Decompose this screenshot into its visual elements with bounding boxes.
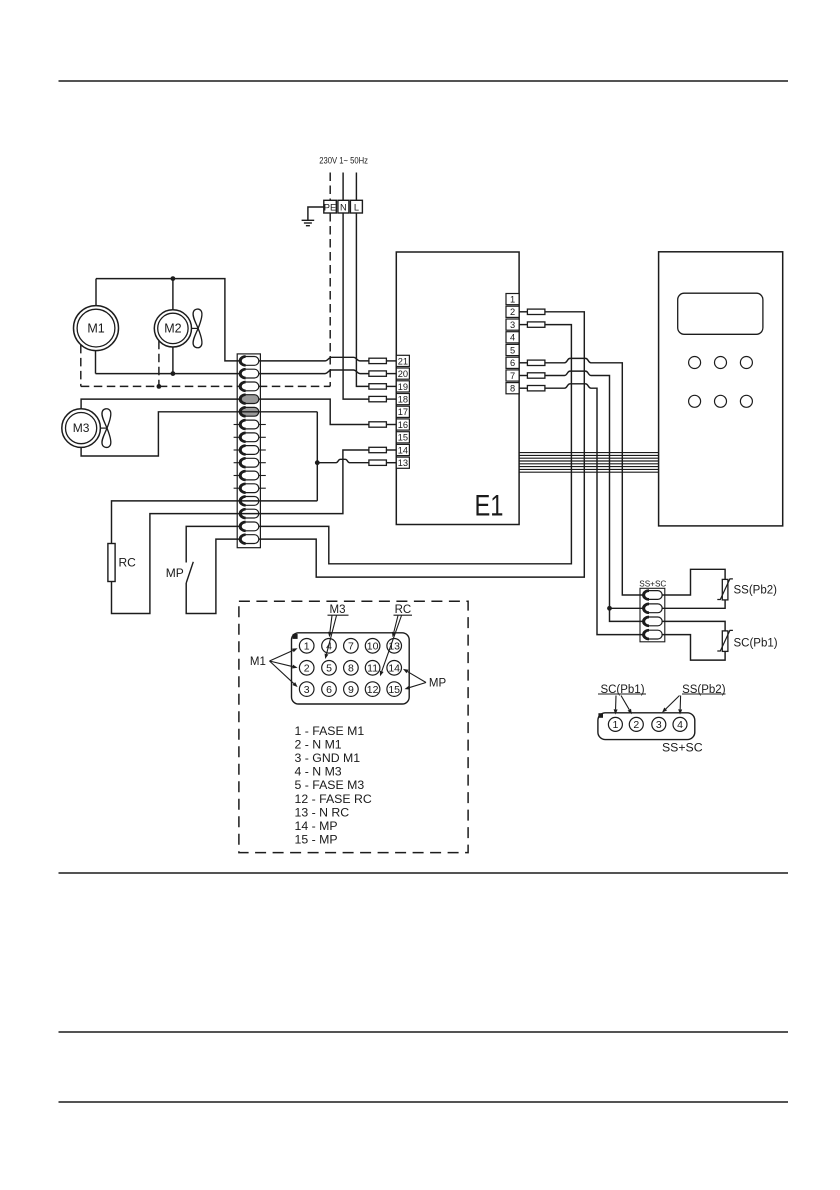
pin 2 of E1 — [506, 306, 519, 317]
svg-text:SS(Pb2): SS(Pb2) — [734, 584, 778, 596]
svg-text:1: 1 — [510, 295, 515, 305]
legend pin 11 — [365, 661, 380, 676]
pin 4 of E1 — [506, 332, 519, 343]
svg-text:8: 8 — [348, 663, 354, 675]
svg-text:16: 16 — [398, 420, 408, 430]
pin 20 of E1 — [396, 368, 409, 379]
node SS+SC 2 branch — [607, 606, 612, 611]
wire pin 2 stub — [519, 311, 527, 313]
terminal X1-6 — [239, 420, 259, 429]
legend pin 8 — [344, 661, 359, 676]
svg-text:20: 20 — [398, 369, 408, 379]
motor M2 — [154, 310, 191, 347]
terminal X1-3 — [239, 382, 259, 391]
legend pin 1 — [299, 639, 314, 654]
switch MP blade — [186, 562, 193, 583]
stub left X1-7 — [234, 436, 240, 438]
wire X1-1 to pin 21 (jog over PE N L) — [259, 357, 369, 361]
svg-text:E1: E1 — [475, 490, 504, 523]
terminal X1-15 — [239, 535, 259, 544]
svg-text:17: 17 — [398, 407, 408, 417]
legend pin 7 — [344, 639, 359, 654]
terminal X1-9 — [239, 458, 259, 467]
wire pin 18 from N — [386, 398, 396, 400]
svg-text:M1: M1 — [87, 321, 104, 335]
legend pin 13 — [387, 639, 402, 654]
svg-text:MP: MP — [429, 678, 447, 690]
panel button r1c3 — [740, 357, 752, 369]
terminal X1-1 — [239, 357, 259, 366]
motor M1 — [74, 306, 119, 351]
svg-text:15: 15 — [398, 433, 408, 443]
wire M1 top lead — [95, 279, 97, 306]
svg-text:M3: M3 — [330, 604, 346, 616]
svg-text:MP: MP — [166, 566, 184, 580]
pin 16 of E1 — [396, 419, 409, 430]
pin 1 of E1 — [506, 294, 519, 305]
legend SS+SC pin 2 — [629, 717, 643, 731]
motor M3 — [62, 409, 101, 448]
stub right X1-11 — [259, 487, 266, 489]
svg-text:6: 6 — [326, 684, 332, 696]
svg-text:L: L — [354, 202, 359, 212]
splice connector pin 13 — [369, 460, 387, 465]
fan of M2 — [192, 309, 202, 348]
terminal SS+SC-1 — [643, 591, 663, 600]
svg-text:18: 18 — [398, 395, 408, 405]
svg-text:3: 3 — [304, 684, 310, 696]
svg-text:SC(Pb1): SC(Pb1) — [734, 637, 778, 649]
legend pin 6 — [322, 682, 337, 697]
svg-text:5: 5 — [510, 345, 515, 355]
panel button r2c3 — [740, 395, 752, 407]
stub left X1-10 — [234, 475, 240, 477]
svg-text:SS+SC: SS+SC — [639, 579, 666, 588]
splice connector pin 2 — [527, 309, 545, 314]
panel button r2c1 — [689, 395, 701, 407]
svg-text:4: 4 — [677, 719, 683, 731]
wire N down — [343, 213, 369, 399]
wire pin 13 (bump over pin14 drop) — [317, 459, 369, 462]
svg-text:1: 1 — [612, 719, 618, 731]
wire SC(Pb1) to SS+SC-4 — [662, 635, 726, 661]
wire pin 6 to SS+SC 1 (bump) — [519, 362, 527, 364]
svg-text:14: 14 — [398, 445, 408, 455]
wire X1-3 earth dashed to PE — [259, 385, 330, 387]
wire L supply drop — [355, 173, 357, 201]
terminal SS+SC-2 — [643, 604, 663, 613]
svg-text:M3: M3 — [73, 421, 90, 435]
stub left X1-8 — [234, 449, 240, 451]
stub right X1-7 — [259, 436, 266, 438]
splice connector pin 20 — [369, 371, 387, 376]
ribbon cable E1-panel — [519, 452, 659, 454]
svg-text:19: 19 — [398, 382, 408, 392]
splice connector pin 7 — [527, 373, 545, 378]
svg-text:PE: PE — [324, 202, 336, 212]
legend connector key mark — [293, 634, 298, 639]
node earth bus / M2 — [157, 384, 162, 389]
panel button r1c2 — [715, 357, 727, 369]
legend connector SS+SC outline — [598, 713, 695, 740]
pin 8 of E1 — [506, 383, 519, 394]
wire X1-14 to pin 3 — [259, 325, 572, 564]
pin 5 of E1 — [506, 344, 519, 355]
svg-text:13 - N RC: 13 - N RC — [295, 805, 350, 819]
legend pin 4 — [322, 639, 337, 654]
wire M1 earth lead dashed — [80, 345, 82, 387]
wire M2 neutral lead — [172, 347, 174, 374]
splice connector pin 14 — [369, 447, 387, 452]
terminal X1-4 — [239, 395, 259, 404]
svg-text:5: 5 — [326, 663, 332, 675]
wire pin 8 to SS+SC 4 (bump) — [519, 387, 527, 389]
svg-text:3: 3 — [510, 320, 515, 330]
svg-text:4: 4 — [510, 333, 515, 343]
svg-text:14: 14 — [388, 663, 400, 675]
thermistor SC(Pb1) — [722, 631, 728, 652]
terminal PE — [324, 200, 337, 213]
panel button r2c2 — [715, 395, 727, 407]
terminal X1-5 — [239, 407, 259, 416]
wire pin 3 stub — [519, 324, 527, 326]
terminal SS+SC-4 — [643, 630, 663, 639]
wire X1-5 / X1-12 riser — [239, 412, 317, 501]
stub left X1-6 — [234, 424, 240, 426]
wire SS(Pb2) to SS+SC-2 — [662, 600, 726, 608]
panel button r1c1 — [689, 357, 701, 369]
connector SS+SC outline — [640, 588, 665, 642]
stub left X1-9 — [234, 462, 240, 464]
splice connector pin 18 — [369, 396, 387, 401]
legend pin 15 — [387, 682, 402, 697]
wire M3 bottom lead to T5 — [81, 412, 239, 456]
legend connector outline — [292, 633, 410, 704]
legend pin 5 — [322, 661, 337, 676]
svg-text:RC: RC — [119, 555, 137, 569]
page rule 4 — [59, 1101, 789, 1103]
stub left X1-11 — [234, 487, 240, 489]
wire X1-13 to pin 14 — [239, 450, 369, 514]
terminal X1-10 — [239, 471, 259, 480]
svg-text:7: 7 — [348, 641, 354, 653]
svg-text:9: 9 — [348, 684, 354, 696]
legend SS+SC pin 1 — [608, 717, 622, 731]
svg-text:4 - N M3: 4 - N M3 — [295, 765, 342, 779]
page rule 2 — [59, 872, 789, 874]
pin 15 of E1 — [396, 432, 409, 443]
legend pin 14 — [387, 661, 402, 676]
svg-text:13: 13 — [398, 458, 408, 468]
wire RC bottom to X1-13 — [112, 514, 240, 614]
wire earth bus dashed — [81, 385, 240, 387]
pin 13 of E1 — [396, 457, 409, 468]
wire PE supply drop — [329, 173, 331, 201]
node phase bus / M2 — [171, 276, 176, 281]
svg-text:14 - MP: 14 - MP — [295, 819, 338, 833]
wire M3 top lead to T4 — [81, 399, 239, 409]
svg-text:1 - FASE M1: 1 - FASE M1 — [295, 724, 365, 738]
svg-text:2: 2 — [510, 307, 515, 317]
terminal X1-8 — [239, 446, 259, 455]
fan of M3 — [100, 409, 110, 448]
stub right X1-8 — [259, 449, 266, 451]
stub right X1-9 — [259, 462, 266, 464]
wire SS+SC-3 to SC(Pb1) — [662, 621, 726, 631]
pin 7 of E1 — [506, 370, 519, 381]
legend pin 3 — [299, 682, 314, 697]
svg-text:M2: M2 — [164, 321, 181, 335]
controller E1 box — [396, 252, 519, 525]
wire SS+SC-1 to SS(Pb2) — [662, 569, 726, 595]
svg-text:12 - FASE RC: 12 - FASE RC — [295, 792, 372, 806]
terminal X1-2 — [239, 369, 259, 378]
legend SS+SC pin 4 — [673, 717, 687, 731]
wire RC top to X1-12 — [112, 501, 240, 544]
splice connector pin 21 — [369, 358, 387, 363]
svg-text:7: 7 — [510, 371, 515, 381]
wire MP top to X1-14 — [186, 526, 239, 562]
wire PE to ground — [308, 207, 324, 220]
control panel box — [659, 252, 783, 526]
pin 21 of E1 — [396, 355, 409, 366]
legend pin 9 — [344, 682, 359, 697]
terminal N — [338, 200, 349, 213]
wire L down — [356, 213, 369, 386]
pin 19 of E1 — [396, 381, 409, 392]
svg-text:3: 3 — [656, 719, 662, 731]
svg-text:21: 21 — [398, 356, 408, 366]
svg-text:1: 1 — [304, 641, 310, 653]
pin 14 of E1 — [396, 444, 409, 455]
legend SS+SC key mark — [598, 713, 603, 718]
pin 6 of E1 — [506, 357, 519, 368]
svg-text:3 - GND M1: 3 - GND M1 — [295, 751, 361, 765]
terminal X1-11 — [239, 484, 259, 493]
svg-text:SS+SC: SS+SC — [662, 741, 703, 755]
terminal X1-12 — [239, 497, 259, 506]
pin 17 of E1 — [396, 406, 409, 417]
stub right X1-6 — [259, 424, 266, 426]
panel display — [678, 293, 763, 334]
stub right X1-10 — [259, 475, 266, 477]
svg-text:RC: RC — [395, 604, 412, 616]
splice connector pin 8 — [527, 386, 545, 391]
thermistor SS(Pb2) — [722, 579, 728, 600]
splice connector pin 16 — [369, 422, 387, 427]
wire M2 top lead — [172, 279, 174, 310]
terminal block X1 outline — [237, 354, 260, 548]
svg-text:M1: M1 — [250, 656, 266, 668]
svg-text:15: 15 — [388, 684, 400, 696]
svg-text:230V 1~ 50Hz: 230V 1~ 50Hz — [319, 155, 368, 165]
terminal L — [350, 200, 362, 213]
wire M2 earth lead dashed — [158, 341, 160, 387]
wire N supply drop — [342, 173, 344, 201]
ground — [302, 219, 315, 221]
svg-text:2 - N M1: 2 - N M1 — [295, 737, 342, 751]
svg-text:10: 10 — [367, 641, 379, 653]
node riser / pin13 wire — [315, 460, 320, 465]
terminal SS+SC-3 — [643, 617, 663, 626]
legend SS+SC pin 3 — [652, 717, 666, 731]
wire X1-15 to pin 2 — [259, 312, 585, 577]
legend dashed box — [239, 601, 468, 852]
wire neutral bus M1/M2 — [96, 373, 240, 375]
resistor RC — [108, 544, 115, 582]
svg-text:N: N — [340, 202, 347, 212]
terminal X1-14 — [239, 522, 259, 531]
legend pin 10 — [365, 639, 380, 654]
wire X1-4 to pin 16 — [259, 399, 369, 424]
wire M1 neutral lead — [95, 351, 97, 374]
terminal X1-7 — [239, 433, 259, 442]
svg-text:5 - FASE M3: 5 - FASE M3 — [295, 778, 365, 792]
node neutral bus / M2 — [171, 371, 176, 376]
pin 3 of E1 — [506, 319, 519, 330]
pin 18 of E1 — [396, 394, 409, 405]
svg-text:2: 2 — [633, 719, 639, 731]
svg-text:12: 12 — [367, 684, 379, 696]
wire pin 7 to SS+SC 2/3 (bump) — [519, 375, 527, 377]
splice connector pin 19 — [369, 384, 387, 389]
svg-text:11: 11 — [367, 663, 378, 675]
splice connector pin 6 — [527, 360, 545, 365]
terminal X1-13 — [239, 509, 259, 518]
svg-text:8: 8 — [510, 384, 515, 394]
svg-text:15 - MP: 15 - MP — [295, 833, 338, 847]
wire phase bus M1/M2 — [96, 279, 239, 361]
splice connector pin 3 — [527, 322, 545, 327]
wire X1-2 to pin 20 (jog over PE N L) — [259, 370, 369, 374]
wire MP bottom to X1-15 — [186, 539, 239, 613]
wire pin 19 from L — [386, 385, 396, 387]
svg-text:2: 2 — [304, 663, 310, 675]
svg-text:6: 6 — [510, 358, 515, 368]
legend pin 2 — [299, 661, 314, 676]
page rule 3 — [59, 1031, 789, 1033]
legend pin 12 — [365, 682, 380, 697]
page rule top — [59, 80, 789, 82]
wire PE dashed down — [329, 213, 331, 386]
